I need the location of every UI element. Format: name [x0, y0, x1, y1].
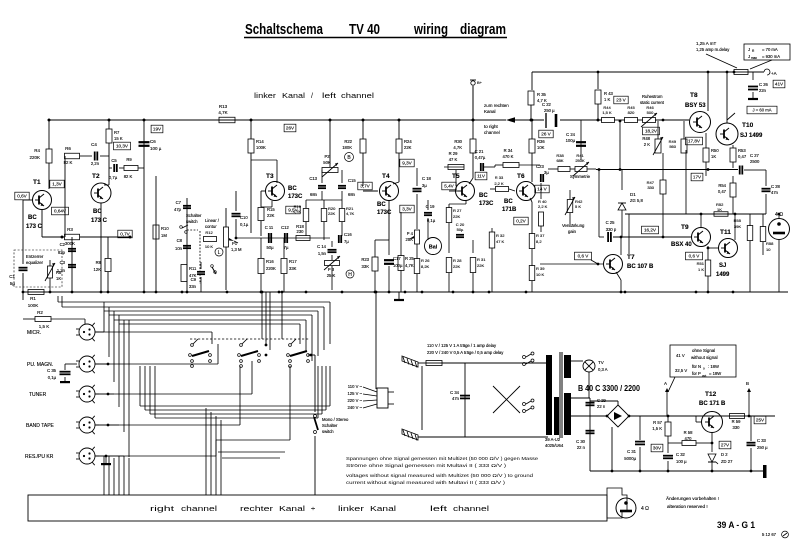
svg-text:voltages without signal mea: voltages without signal measured with Mu…: [346, 473, 534, 478]
svg-text:linker: linker: [338, 504, 365, 513]
svg-text:0,7µ: 0,7µ: [109, 175, 118, 180]
svg-text:R15: R15: [267, 207, 275, 212]
svg-text:1,3V: 1,3V: [52, 182, 62, 187]
svg-text:1 K: 1 K: [698, 267, 704, 272]
svg-text:C 31: C 31: [627, 449, 637, 454]
svg-text:ZD 27: ZD 27: [721, 459, 733, 464]
svg-text:R23: R23: [361, 257, 369, 262]
svg-text:47 K: 47 K: [496, 239, 505, 244]
svg-text:1499: 1499: [716, 272, 730, 278]
svg-text:250 µ: 250 µ: [544, 108, 555, 113]
svg-text:50µ: 50µ: [457, 227, 464, 232]
svg-text:H: H: [348, 272, 352, 278]
svg-text:R58: R58: [766, 241, 774, 246]
svg-text:T4: T4: [382, 173, 390, 180]
svg-text:10 K: 10 K: [205, 244, 214, 249]
svg-text:5 K: 5 K: [575, 204, 581, 209]
svg-text:channel: channel: [181, 504, 217, 513]
svg-text:39 A-U2: 39 A-U2: [545, 437, 561, 442]
svg-text:P 3: P 3: [328, 267, 335, 272]
svg-text:0,6V: 0,6V: [17, 194, 27, 199]
svg-text:Kanal: Kanal: [484, 109, 496, 114]
svg-text:171B: 171B: [502, 207, 517, 213]
svg-text:C 29: C 29: [597, 398, 607, 403]
svg-text:R 57: R 57: [653, 420, 663, 425]
svg-text:500: 500: [647, 110, 654, 115]
svg-text:16,2V: 16,2V: [644, 228, 657, 233]
svg-text:R 25: R 25: [405, 256, 415, 261]
svg-text:C 24: C 24: [566, 132, 576, 137]
svg-text:2,2n: 2,2n: [91, 161, 100, 166]
svg-text:Linear /: Linear /: [205, 218, 220, 223]
svg-text:0,47: 0,47: [718, 189, 727, 194]
svg-text:33n: 33n: [189, 284, 197, 289]
svg-text:25V: 25V: [756, 418, 765, 423]
svg-text:22K: 22K: [453, 214, 460, 219]
svg-text:B: B: [746, 381, 749, 386]
svg-text:C 21: C 21: [475, 149, 485, 154]
svg-text:B+: B+: [477, 80, 483, 85]
svg-text:2500: 2500: [750, 159, 760, 164]
svg-text:R 59: R 59: [732, 419, 742, 424]
svg-text:C10: C10: [240, 215, 248, 220]
svg-text:2,2 K: 2,2 K: [494, 181, 504, 186]
svg-text:J: J: [748, 47, 750, 52]
svg-text:R 32: R 32: [496, 233, 505, 238]
svg-text:Schalter: Schalter: [322, 423, 338, 428]
svg-text:30V: 30V: [653, 446, 662, 451]
svg-text:3,3V: 3,3V: [402, 207, 412, 212]
svg-text:3µ: 3µ: [422, 183, 427, 188]
svg-text:current without signal m: current without signal measured with Mul…: [346, 480, 506, 485]
svg-text:23 V: 23 V: [616, 98, 626, 103]
svg-text:C6: C6: [150, 139, 156, 144]
svg-text:9,3V: 9,3V: [402, 161, 412, 166]
svg-text:R17: R17: [289, 259, 297, 264]
svg-text:25 K: 25 K: [327, 273, 336, 278]
svg-text:39K: 39K: [734, 224, 741, 229]
svg-text:linker: linker: [254, 91, 277, 100]
svg-text:R12: R12: [205, 230, 213, 235]
svg-text:5 12 67: 5 12 67: [762, 532, 777, 537]
svg-text:= 930 mA: = 930 mA: [762, 54, 780, 59]
svg-text:C 26: C 26: [759, 82, 769, 87]
svg-text:230: 230: [297, 229, 305, 234]
svg-text:Verstärkung: Verstärkung: [562, 223, 585, 228]
svg-text:D 2: D 2: [721, 452, 728, 457]
svg-text:Schalter: Schalter: [186, 213, 202, 218]
svg-text:Kanal: Kanal: [370, 504, 396, 513]
svg-text:für N: für N: [692, 364, 701, 369]
svg-text:R 58: R 58: [684, 430, 694, 435]
svg-text:4,7K: 4,7K: [453, 145, 462, 150]
svg-text:R13: R13: [219, 104, 228, 109]
svg-text:100 µ: 100 µ: [150, 146, 162, 151]
svg-text:BC 107 B: BC 107 B: [627, 264, 654, 270]
svg-text:Bal: Bal: [429, 245, 438, 251]
svg-text:C5: C5: [111, 158, 117, 163]
svg-text:Ruhestrom: Ruhestrom: [642, 94, 663, 99]
svg-text:out: out: [702, 374, 706, 378]
svg-text:C 34: C 34: [450, 390, 460, 395]
svg-text:470: 470: [685, 436, 693, 441]
svg-text:1,25 A mT: 1,25 A mT: [696, 41, 717, 46]
svg-text:BC: BC: [479, 193, 488, 199]
svg-text:14 V: 14 V: [537, 187, 547, 192]
svg-text:22K: 22K: [453, 264, 460, 269]
svg-text:250K: 250K: [575, 158, 585, 163]
svg-text:110 V / 125 V 1 A träge: 110 V / 125 V 1 A träge / 1 amp delay: [427, 343, 497, 348]
svg-text:330: 330: [733, 425, 741, 430]
svg-text:without signal: without signal: [691, 355, 718, 360]
svg-text:27V: 27V: [721, 443, 730, 448]
svg-text:gain: gain: [568, 229, 577, 234]
svg-text:50µ: 50µ: [266, 245, 274, 250]
svg-text:C 33: C 33: [757, 438, 767, 443]
svg-text:R30: R30: [454, 139, 462, 144]
svg-text:C 30: C 30: [576, 439, 586, 444]
svg-text:R14: R14: [256, 139, 264, 144]
svg-text:4 Ω: 4 Ω: [641, 506, 649, 512]
svg-text:220 V ~: 220 V ~: [347, 398, 362, 403]
svg-text:7µ: 7µ: [284, 245, 289, 250]
svg-text:Kanal: Kanal: [279, 504, 305, 513]
svg-text:Schaltschema: Schaltschema: [245, 21, 324, 38]
svg-text:ZG 5,8: ZG 5,8: [630, 198, 643, 203]
svg-text:220 V / 240 V 0,5 A träge: 220 V / 240 V 0,5 A träge / 0,5 amp dela…: [427, 350, 504, 355]
svg-text:R 26: R 26: [421, 258, 430, 263]
svg-text:channel: channel: [453, 504, 489, 513]
svg-text:330: 330: [647, 185, 654, 190]
svg-text:22K: 22K: [267, 213, 275, 218]
svg-text:1,5 K: 1,5 K: [602, 110, 612, 115]
svg-text:+A: +A: [771, 71, 777, 76]
svg-text:R22: R22: [344, 139, 352, 144]
svg-text:10: 10: [766, 247, 771, 252]
svg-text:1,5 K: 1,5 K: [39, 324, 50, 329]
svg-text:39 A - G 1: 39 A - G 1: [717, 520, 756, 531]
svg-text:diagram: diagram: [460, 21, 506, 38]
svg-text:110 V ~: 110 V ~: [348, 384, 363, 389]
svg-text:C13: C13: [309, 176, 317, 181]
svg-text:RES./PU KR: RES./PU KR: [25, 454, 54, 460]
svg-text:P1: P1: [232, 241, 238, 246]
svg-text:T2: T2: [92, 173, 100, 180]
svg-text:C 11: C 11: [265, 225, 274, 230]
svg-text:1K: 1K: [711, 154, 716, 159]
svg-text:T7: T7: [627, 254, 635, 261]
svg-text:220K: 220K: [29, 155, 40, 160]
svg-text:R 34: R 34: [504, 148, 514, 153]
svg-text:C1: C1: [9, 274, 15, 279]
svg-text:4,7K: 4,7K: [346, 211, 355, 216]
svg-text:switch: switch: [186, 219, 198, 224]
svg-text:MICR.: MICR.: [27, 330, 41, 336]
svg-text:22K: 22K: [477, 263, 484, 268]
svg-text:68n: 68n: [348, 192, 356, 197]
svg-text:Entzerrer: Entzerrer: [26, 254, 44, 259]
svg-text:26V: 26V: [286, 126, 295, 131]
svg-text:= 18W: = 18W: [709, 371, 721, 376]
svg-text:82p: 82p: [58, 250, 66, 255]
svg-text:22K: 22K: [404, 145, 412, 150]
svg-text:TUNER: TUNER: [29, 392, 47, 398]
svg-text:10,3V: 10,3V: [116, 144, 129, 149]
svg-text:Mono / Stereo: Mono / Stereo: [322, 417, 349, 422]
svg-text:J: J: [748, 54, 750, 59]
svg-text:19V: 19V: [153, 127, 162, 132]
svg-text:470 K: 470 K: [503, 154, 514, 159]
svg-text:T11: T11: [720, 229, 731, 236]
svg-text:22 n: 22 n: [597, 404, 606, 409]
svg-text:L: L: [218, 250, 221, 256]
svg-text:1,5 K: 1,5 K: [652, 426, 662, 431]
svg-text:C7: C7: [176, 200, 182, 205]
svg-text:22K: 22K: [328, 211, 335, 216]
svg-text:TV: TV: [598, 360, 604, 365]
svg-text:100µ: 100µ: [566, 138, 576, 143]
svg-text:R24: R24: [404, 139, 412, 144]
svg-text:R16: R16: [266, 259, 274, 264]
svg-text:47 K: 47 K: [449, 157, 458, 162]
svg-text:173C: 173C: [377, 210, 392, 216]
svg-text:10 K: 10 K: [536, 272, 545, 277]
svg-text:4025/U64: 4025/U64: [545, 443, 564, 448]
svg-text:0,3 A: 0,3 A: [598, 367, 608, 372]
svg-text:Spannungen ohne Signal geme: Spannungen ohne Signal gemessen mit Mult…: [346, 456, 539, 461]
svg-text:173 C: 173 C: [26, 224, 43, 230]
svg-text:R4: R4: [34, 148, 40, 153]
svg-text:R7: R7: [114, 130, 120, 135]
svg-text:C2: C2: [60, 242, 66, 247]
svg-text:R1: R1: [30, 296, 36, 301]
svg-text:Ströme ohne Signal gemessen: Ströme ohne Signal gemessen mit Multavi …: [346, 463, 507, 468]
svg-text:22n: 22n: [759, 88, 767, 93]
svg-text:1 K: 1 K: [604, 97, 610, 102]
svg-text:R8: R8: [96, 260, 102, 265]
svg-text:47p: 47p: [174, 207, 182, 212]
svg-text:A: A: [664, 381, 667, 386]
svg-text:R 33: R 33: [495, 175, 504, 180]
svg-text:T8: T8: [690, 92, 698, 99]
svg-text:1K: 1K: [56, 276, 61, 281]
svg-text:0,47µ: 0,47µ: [475, 155, 486, 160]
svg-text:220K: 220K: [266, 266, 276, 271]
svg-text:15 K: 15 K: [114, 136, 123, 141]
svg-text:R50: R50: [711, 148, 719, 153]
svg-text:10n: 10n: [175, 246, 183, 251]
svg-text:C8: C8: [177, 238, 183, 243]
svg-text:C3: C3: [60, 260, 66, 265]
svg-text:T6: T6: [517, 173, 525, 180]
svg-text:300K: 300K: [65, 241, 75, 246]
svg-text:R 37: R 37: [536, 233, 545, 238]
svg-text:330 p: 330 p: [606, 227, 617, 232]
svg-text:R51: R51: [697, 261, 705, 266]
svg-text:channel: channel: [341, 91, 374, 100]
svg-text:R 31: R 31: [477, 257, 486, 262]
svg-text:32,5 V: 32,5 V: [675, 368, 687, 373]
svg-text:C 32: C 32: [676, 452, 686, 457]
svg-text:100 µ: 100 µ: [676, 459, 687, 464]
svg-text:5µ: 5µ: [10, 281, 16, 286]
svg-text:1M: 1M: [161, 233, 167, 238]
svg-text:68n: 68n: [310, 192, 318, 197]
svg-text:R 35: R 35: [537, 92, 547, 97]
svg-text:3,7V: 3,7V: [360, 184, 370, 189]
svg-text:11V: 11V: [477, 174, 486, 179]
svg-text:D1: D1: [630, 192, 636, 197]
svg-text:left: left: [322, 91, 337, 100]
svg-text:4,7K: 4,7K: [218, 110, 227, 115]
svg-text:zum rechten: zum rechten: [484, 103, 509, 108]
svg-text:C 35: C 35: [47, 368, 57, 373]
svg-text:BC: BC: [28, 215, 37, 221]
svg-text:820: 820: [628, 110, 635, 115]
svg-text:3µ: 3µ: [544, 170, 549, 175]
svg-text:BC: BC: [377, 202, 386, 208]
svg-text:47n: 47n: [452, 396, 460, 401]
svg-text:R3: R3: [67, 227, 73, 232]
svg-text:B 40 C 3300 / 2200: B 40 C 3300 / 2200: [578, 384, 640, 393]
svg-text:R55: R55: [734, 218, 742, 223]
svg-text:10K: 10K: [537, 145, 545, 150]
svg-text:R10: R10: [161, 226, 169, 231]
svg-text:P 4: P 4: [407, 231, 414, 236]
svg-text:22 n: 22 n: [577, 445, 586, 450]
svg-text:4,7K: 4,7K: [293, 209, 302, 214]
svg-text:82 K: 82 K: [64, 160, 73, 165]
svg-text:25K: 25K: [406, 237, 414, 242]
svg-text:12K: 12K: [94, 267, 102, 272]
svg-text:T9: T9: [681, 224, 689, 231]
svg-text:0,6 V: 0,6 V: [689, 254, 701, 259]
svg-text:alteration reserved !: alteration reserved !: [667, 504, 708, 509]
svg-text:R 29: R 29: [449, 151, 459, 156]
svg-text:125 V ~: 125 V ~: [347, 391, 362, 396]
svg-text:TV 40: TV 40: [349, 21, 380, 38]
svg-text:R2: R2: [37, 310, 43, 315]
svg-text:17,8V: 17,8V: [688, 139, 701, 144]
svg-text:100K: 100K: [256, 145, 266, 150]
svg-text:2,2 K: 2,2 K: [538, 204, 548, 209]
svg-text:R36: R36: [537, 139, 545, 144]
svg-text:173 C: 173 C: [91, 218, 108, 224]
svg-text:18,2V: 18,2V: [645, 129, 658, 134]
svg-text:R 43: R 43: [604, 91, 614, 96]
svg-text:0,1µ: 0,1µ: [240, 222, 249, 227]
svg-text:R11: R11: [189, 266, 197, 271]
svg-text:C 18: C 18: [422, 176, 432, 181]
svg-text:8,2K: 8,2K: [421, 264, 430, 269]
svg-text:173C: 173C: [288, 194, 303, 200]
svg-text:8,2: 8,2: [536, 239, 542, 244]
svg-text:82 K: 82 K: [124, 174, 133, 179]
svg-text:SJ 1499: SJ 1499: [740, 133, 763, 139]
svg-text:for P: for P: [692, 371, 701, 376]
svg-text:C 14: C 14: [317, 244, 327, 249]
svg-text:C 28: C 28: [771, 184, 781, 189]
svg-text:250 µ: 250 µ: [757, 445, 768, 450]
svg-text:41 V: 41 V: [676, 353, 685, 358]
svg-text:R54: R54: [718, 183, 726, 188]
svg-text:C 19: C 19: [426, 204, 436, 209]
svg-text:0,47: 0,47: [738, 154, 747, 159]
svg-text:T3: T3: [266, 173, 274, 180]
svg-text:right: right: [150, 504, 176, 513]
svg-text:0,2V: 0,2V: [516, 219, 526, 224]
svg-text:7µ: 7µ: [344, 239, 349, 244]
svg-text:Symmetrie: Symmetrie: [570, 174, 591, 179]
svg-text:C4: C4: [91, 142, 97, 147]
svg-text:R 27: R 27: [453, 208, 462, 213]
svg-text:C12: C12: [281, 225, 289, 230]
svg-text:C16: C16: [344, 232, 352, 237]
svg-text:1,3 M: 1,3 M: [231, 247, 242, 252]
svg-text:1K: 1K: [717, 207, 722, 212]
svg-text:T1: T1: [33, 179, 41, 186]
svg-text:2 K: 2 K: [644, 142, 650, 147]
svg-text:5000µ: 5000µ: [624, 456, 636, 461]
svg-text:33K: 33K: [289, 266, 297, 271]
svg-text:BSX 40: BSX 40: [671, 242, 692, 248]
svg-text:Kanal: Kanal: [282, 91, 305, 100]
svg-text:41V: 41V: [775, 82, 784, 87]
svg-text:wiring: wiring: [413, 21, 448, 38]
svg-text:47n: 47n: [771, 190, 779, 195]
svg-text:P2: P2: [324, 154, 330, 159]
svg-text:ohne Signal: ohne Signal: [692, 348, 715, 353]
svg-text:560: 560: [669, 144, 676, 149]
svg-text:C9: C9: [191, 277, 197, 282]
svg-text:left: left: [430, 504, 449, 513]
svg-text:BC: BC: [288, 186, 297, 192]
svg-text:1,25 amp m.delay: 1,25 amp m.delay: [696, 47, 730, 52]
svg-text:Änderungen vorbehalten !: Änderungen vorbehalten !: [666, 495, 719, 501]
svg-text:R53: R53: [738, 148, 746, 153]
svg-text:100K: 100K: [28, 303, 39, 308]
svg-text:0,1µ: 0,1µ: [48, 375, 57, 380]
svg-text:BAND TAPE: BAND TAPE: [26, 423, 55, 429]
svg-text:C15: C15: [348, 178, 356, 183]
svg-text:R6: R6: [65, 146, 71, 151]
svg-text:240 V ~: 240 V ~: [347, 405, 362, 410]
svg-text:channel: channel: [484, 130, 500, 135]
svg-text:173C: 173C: [479, 201, 494, 207]
svg-text:5,4V: 5,4V: [444, 184, 454, 189]
svg-text:C23: C23: [536, 164, 544, 169]
svg-text:= 70 mA: = 70 mA: [762, 47, 778, 52]
svg-text:C 22: C 22: [542, 102, 552, 107]
svg-text:R48: R48: [642, 136, 650, 141]
svg-text:: 18W: : 18W: [708, 364, 719, 369]
svg-text:BC 171 B: BC 171 B: [699, 401, 726, 407]
svg-text:T10: T10: [742, 122, 754, 129]
svg-text:BC: BC: [504, 199, 513, 205]
svg-text:SJ: SJ: [719, 263, 726, 269]
svg-text:68K: 68K: [556, 158, 563, 163]
svg-text:J = 60 mA: J = 60 mA: [753, 108, 772, 113]
svg-text:max: max: [751, 56, 757, 60]
svg-text:BSY 53: BSY 53: [685, 103, 706, 109]
svg-text:to right: to right: [484, 124, 499, 129]
svg-text:switch: switch: [322, 429, 334, 434]
svg-text:C 25: C 25: [606, 220, 616, 225]
svg-text:17V: 17V: [693, 175, 702, 180]
svg-text:1,5n: 1,5n: [318, 251, 327, 256]
svg-text:contur: contur: [205, 224, 217, 229]
svg-text:rechter: rechter: [240, 504, 274, 513]
